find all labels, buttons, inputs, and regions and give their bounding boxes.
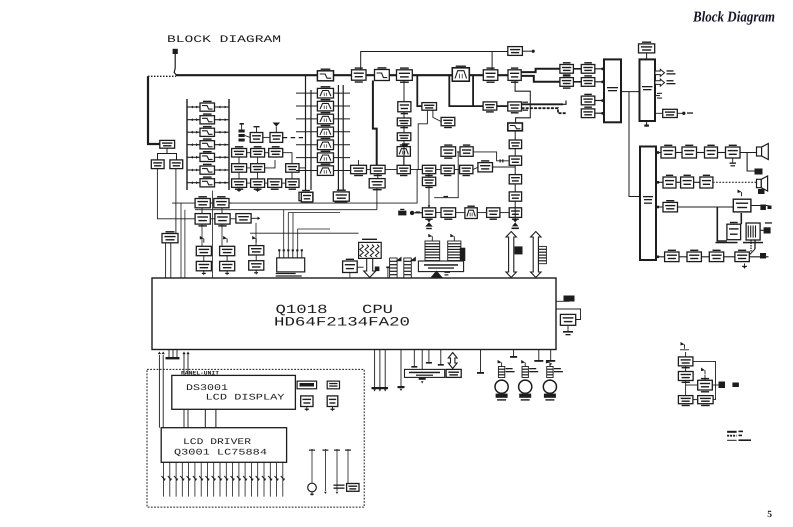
ic audio processor U1 [604, 59, 621, 122]
antenna remote tp [680, 342, 689, 350]
filter FL5 [200, 151, 215, 162]
wire under stub 5 [411, 350, 417, 368]
wire main RF bus [176, 74, 522, 76]
block mute [733, 199, 751, 212]
block osc box [418, 261, 463, 272]
wire stereo pair [522, 101, 567, 114]
wire mid row1 [367, 167, 516, 170]
bus arrow 1 [506, 232, 516, 278]
wire L3 to CPU [166, 243, 171, 278]
wire U1-U2 [621, 91, 640, 93]
wire row mute [656, 206, 769, 208]
block out single [663, 200, 678, 212]
speaker front R [757, 176, 768, 191]
block eeprom text [405, 369, 445, 377]
resonator pair 3 [249, 236, 264, 275]
filter mid trap [397, 144, 410, 156]
filter bank left rails [187, 99, 229, 190]
wire meter [655, 112, 693, 115]
wire resonator feeds [284, 210, 340, 250]
wire mid vert1 [359, 156, 429, 178]
block panel conn B [327, 381, 339, 389]
wire pll verts [202, 223, 256, 246]
filter top on bus [317, 69, 333, 81]
block grid r3c3 [268, 179, 282, 190]
wire mid row2 [415, 212, 510, 214]
connector blob mid [398, 209, 422, 216]
svg-text:5: 5 [767, 510, 772, 520]
stub under A4 [730, 158, 737, 166]
wire pll row1 [210, 202, 231, 204]
block mid sub1 [369, 179, 385, 191]
wire osc feed long [250, 232, 359, 234]
filter FL1 [200, 101, 215, 112]
block out C2 [687, 250, 701, 262]
antenna mute tp [738, 189, 742, 196]
arrow oscbox to CPU [431, 271, 451, 278]
block out C3 [709, 250, 723, 262]
wire split to rows [522, 69, 560, 82]
resonator tall 1 [425, 234, 440, 261]
svg-text:Q3001 LC75884: Q3001 LC75884 [174, 448, 267, 458]
wire control drop [491, 52, 493, 76]
resistor array RA1 [359, 239, 382, 259]
block rem5 [698, 396, 713, 407]
wire ant branch lines [181, 203, 185, 278]
filter FB2 [317, 99, 333, 111]
bus arrow 2 [531, 232, 541, 278]
wire under stub 7 [426, 350, 432, 364]
block out A4 [726, 145, 741, 158]
wire disc loop [417, 75, 473, 106]
wire ant split [158, 148, 177, 160]
wire het left [473, 75, 483, 106]
ground panel c2 [330, 407, 334, 412]
filter B4 bandpass [452, 66, 469, 82]
block pre B2 [581, 75, 595, 86]
block rem4 [678, 396, 693, 407]
wire under stub 4 [398, 350, 405, 392]
wire r0 drop [434, 152, 458, 198]
block grid r3c4 [286, 179, 299, 190]
label PANEL-UNIT [181, 371, 220, 377]
filter bank mid rails [296, 76, 350, 190]
block grid r2c4 [286, 164, 306, 173]
block grid r1c3 [269, 146, 283, 157]
wire bank out to CPU [211, 191, 213, 279]
block mid r2b [441, 208, 456, 220]
block disc [422, 103, 437, 111]
filter FL6 [200, 164, 215, 175]
block mid r2e [509, 208, 521, 220]
ic CPU Q1018 [152, 278, 556, 350]
block pre B1 [581, 62, 595, 73]
block IF c4 [509, 192, 521, 201]
block panel conn A [297, 381, 317, 389]
wire disc down [418, 110, 441, 169]
ground row C [742, 264, 747, 269]
block out A2 [682, 145, 697, 158]
wire sub link [749, 240, 755, 255]
wire spk A gnd [747, 153, 762, 175]
arrow RA1 to CPU [364, 258, 380, 277]
connector remote out [712, 382, 739, 389]
ground panel c1 [305, 407, 309, 412]
block IF c1 [509, 140, 521, 149]
block detector [508, 47, 523, 56]
block mixer B3 [397, 67, 413, 83]
block tuner buf1 [250, 126, 263, 142]
block rem3 [698, 378, 713, 393]
block xtal [560, 314, 575, 325]
legend [727, 431, 751, 441]
wire row B [656, 181, 757, 183]
block ant amp right [170, 160, 183, 169]
wire tuner dashes [283, 137, 303, 139]
lcd driver pins [162, 462, 286, 496]
wire under stub 12 [546, 350, 555, 366]
wire panel verts [309, 449, 351, 494]
arrow out L [655, 69, 676, 76]
wire grid r1 [247, 153, 292, 164]
filter FL4 [200, 138, 215, 149]
filter FB4 [317, 125, 333, 137]
filter FB3 [317, 112, 333, 124]
svg-text:Block Diagram: Block Diagram [692, 10, 775, 26]
block out C1 [665, 250, 679, 262]
connector cpu bottom left [166, 350, 180, 360]
block panel small [334, 484, 360, 492]
connector dark left [460, 248, 466, 261]
wire ant down left [157, 169, 195, 219]
wire control line top [361, 52, 508, 76]
svg-text:BLOCK DIAGRAM: BLOCK DIAGRAM [167, 35, 281, 46]
block out B1 [663, 175, 676, 188]
filter FB6 [317, 151, 333, 163]
block grid r1c1 [232, 146, 247, 157]
block B3 sub3 [397, 133, 411, 141]
block pll left2 [214, 196, 229, 208]
connector tuner in [239, 123, 251, 142]
block mid r1b [371, 165, 386, 176]
wire under stub 10 [510, 350, 517, 358]
label under sub amps [716, 242, 764, 244]
block RF amp B1 [352, 67, 367, 82]
resonator pair 1 [196, 236, 211, 275]
block sub amp A [727, 222, 741, 240]
filter FB5 [317, 138, 333, 150]
block ant amp left [151, 160, 164, 169]
ground grid g2 [256, 187, 260, 192]
crystal CPU side [556, 296, 581, 320]
block pre A2 [560, 75, 574, 89]
connector mute out [760, 205, 771, 211]
resistor hatch R2 [539, 246, 547, 263]
block out B2 [681, 175, 694, 188]
wire crystal link [350, 267, 364, 278]
block IF c3 [509, 175, 521, 184]
block B3 sub2 [397, 118, 411, 128]
block mpx top [639, 42, 655, 53]
connector row C [760, 253, 766, 259]
block panel c2 [327, 396, 338, 407]
block B3 sub [398, 102, 411, 115]
block grid r2c2 [251, 164, 265, 173]
block pll b1 [195, 214, 210, 227]
wire pre links [573, 69, 604, 113]
svg-text:LCD DRIVER: LCD DRIVER [183, 437, 251, 447]
ic stereo decoder U2 [640, 53, 656, 121]
connector spk B [758, 189, 765, 194]
wire grid r2 [239, 157, 275, 168]
block IF amp B5 [483, 67, 498, 83]
wire long A [172, 170, 417, 204]
tick B3 chain [402, 143, 410, 146]
wire row C [656, 256, 769, 258]
block pll b3 [236, 214, 251, 223]
resonator pair 2 [220, 236, 235, 275]
block grid r3c2 [251, 179, 265, 190]
block pre B4 [581, 107, 595, 118]
block mid r1c [397, 165, 410, 176]
junction nubs U1 inputs [602, 68, 605, 115]
filter IF top [508, 123, 523, 131]
label LCD DRIVER [174, 437, 267, 458]
wire bus left dotted [148, 75, 176, 77]
block rem2 [678, 372, 693, 384]
antenna [173, 49, 178, 75]
block mid bank out B [335, 192, 347, 202]
block mid r2a [422, 208, 435, 220]
block grid r2c1 [232, 164, 247, 173]
wire sub amp [717, 207, 772, 241]
block mid sub2 [422, 177, 435, 188]
wire under stub cluster [372, 350, 389, 392]
speaker front L [757, 144, 769, 160]
stub under U2 [644, 121, 649, 127]
lcd driver Q3001 [161, 428, 286, 463]
resonator X1001 [276, 249, 305, 276]
block pre B3 [581, 94, 595, 105]
wire stub with dot [522, 50, 534, 53]
block sub amp B [746, 223, 760, 240]
ic power amp U3 [640, 147, 656, 261]
filter FL2 [200, 113, 215, 123]
block out C4 [735, 250, 749, 262]
svg-text:DS3001: DS3001 [186, 383, 228, 393]
block B5 sub [483, 102, 497, 113]
block out A1 [661, 145, 676, 158]
switch S3 [543, 360, 563, 401]
wire ant down right [175, 169, 177, 234]
tick row2 in [416, 211, 420, 213]
wire under stub 9 [477, 350, 484, 374]
block mid osc [333, 190, 349, 202]
block VCO [299, 190, 313, 203]
switch S1 [495, 360, 515, 401]
block mid r2d [487, 208, 500, 220]
connector IF bottom [512, 219, 519, 230]
ground xtal [563, 325, 573, 335]
block antenna switch [160, 140, 175, 148]
block eeprom [446, 369, 461, 377]
svg-text:LCD DISPLAY: LCD DISPLAY [206, 393, 285, 403]
wire under stub 8 [438, 350, 444, 366]
wire panel risers 2 [182, 352, 189, 428]
block rem1 [678, 357, 693, 369]
wire sub2 drop [428, 186, 431, 208]
connector under r2a [425, 219, 433, 230]
diagram title BLOCK DIAGRAM [167, 35, 281, 46]
label CPU Q1018 [274, 303, 410, 329]
block tuner buf2 [263, 123, 283, 143]
block level meter [663, 109, 678, 117]
svg-text:HD64F2134FA20: HD64F2134FA20 [274, 314, 410, 329]
page header title [692, 10, 775, 26]
panel unit enclosure [147, 369, 364, 507]
nubs TB3 inputs [656, 151, 659, 258]
block IF amp B6 [508, 67, 521, 83]
wire B3 chain [403, 80, 405, 165]
block mid r1e [441, 165, 454, 176]
block mid r0b [460, 144, 473, 156]
block mid r1g [478, 160, 493, 172]
block pre A1 [560, 62, 574, 76]
page number 5 [767, 510, 772, 520]
wire under stub 11 [534, 350, 543, 362]
wire panel risers [158, 352, 165, 428]
wire lcd link [205, 409, 216, 427]
wire pll row2 [202, 208, 260, 220]
wire IF chain vertical [514, 131, 516, 218]
wire B2 drop [373, 81, 377, 166]
filter FL7 [200, 176, 215, 187]
ground grid g1 [237, 187, 241, 192]
block out A3 [705, 145, 718, 158]
filter FB7 [317, 164, 333, 176]
arrow out R [655, 79, 676, 86]
filter FB1 [317, 86, 333, 98]
lcd display DS3001 [172, 375, 296, 409]
stub out mid [655, 93, 662, 99]
block pll b2 [215, 214, 230, 227]
block mid r1f [460, 165, 473, 176]
wire het mid [497, 105, 508, 107]
block buffer L3 [162, 231, 178, 243]
wire row A [656, 152, 757, 154]
block panel c1 [301, 396, 313, 407]
wire long B [195, 188, 377, 210]
filter mid r2c [465, 206, 477, 219]
wire B6 loop [515, 80, 530, 123]
block disc sub [441, 117, 455, 128]
block IF c2 [509, 156, 521, 165]
wire grid r3 [239, 172, 292, 183]
cap array [386, 257, 416, 279]
lamp panel [308, 483, 317, 496]
block grid r3c1 [232, 179, 247, 190]
block grid r1c2 [251, 146, 265, 157]
resonator tall 2 [448, 234, 461, 261]
block mid bank out A [301, 192, 313, 202]
crystal X1002 [343, 259, 358, 273]
wire under stub 6 [419, 350, 426, 384]
wire U2 tap down [629, 92, 639, 197]
block mid r0a [441, 144, 456, 158]
block pll left [195, 196, 210, 208]
block mid r1a [351, 165, 367, 176]
block B6 sub [508, 102, 522, 114]
block mid r1d [422, 165, 435, 176]
switch S2 [519, 360, 539, 401]
wire remote [686, 352, 716, 400]
filter FL3 [200, 126, 215, 136]
wire mid r0 [457, 152, 509, 163]
arrow serial [448, 353, 457, 369]
block out B3 [700, 175, 713, 188]
filter B2 [375, 67, 390, 80]
label DS3001 [186, 383, 285, 403]
connector blob arrows [515, 246, 523, 254]
wire left vertical feed [148, 76, 160, 144]
